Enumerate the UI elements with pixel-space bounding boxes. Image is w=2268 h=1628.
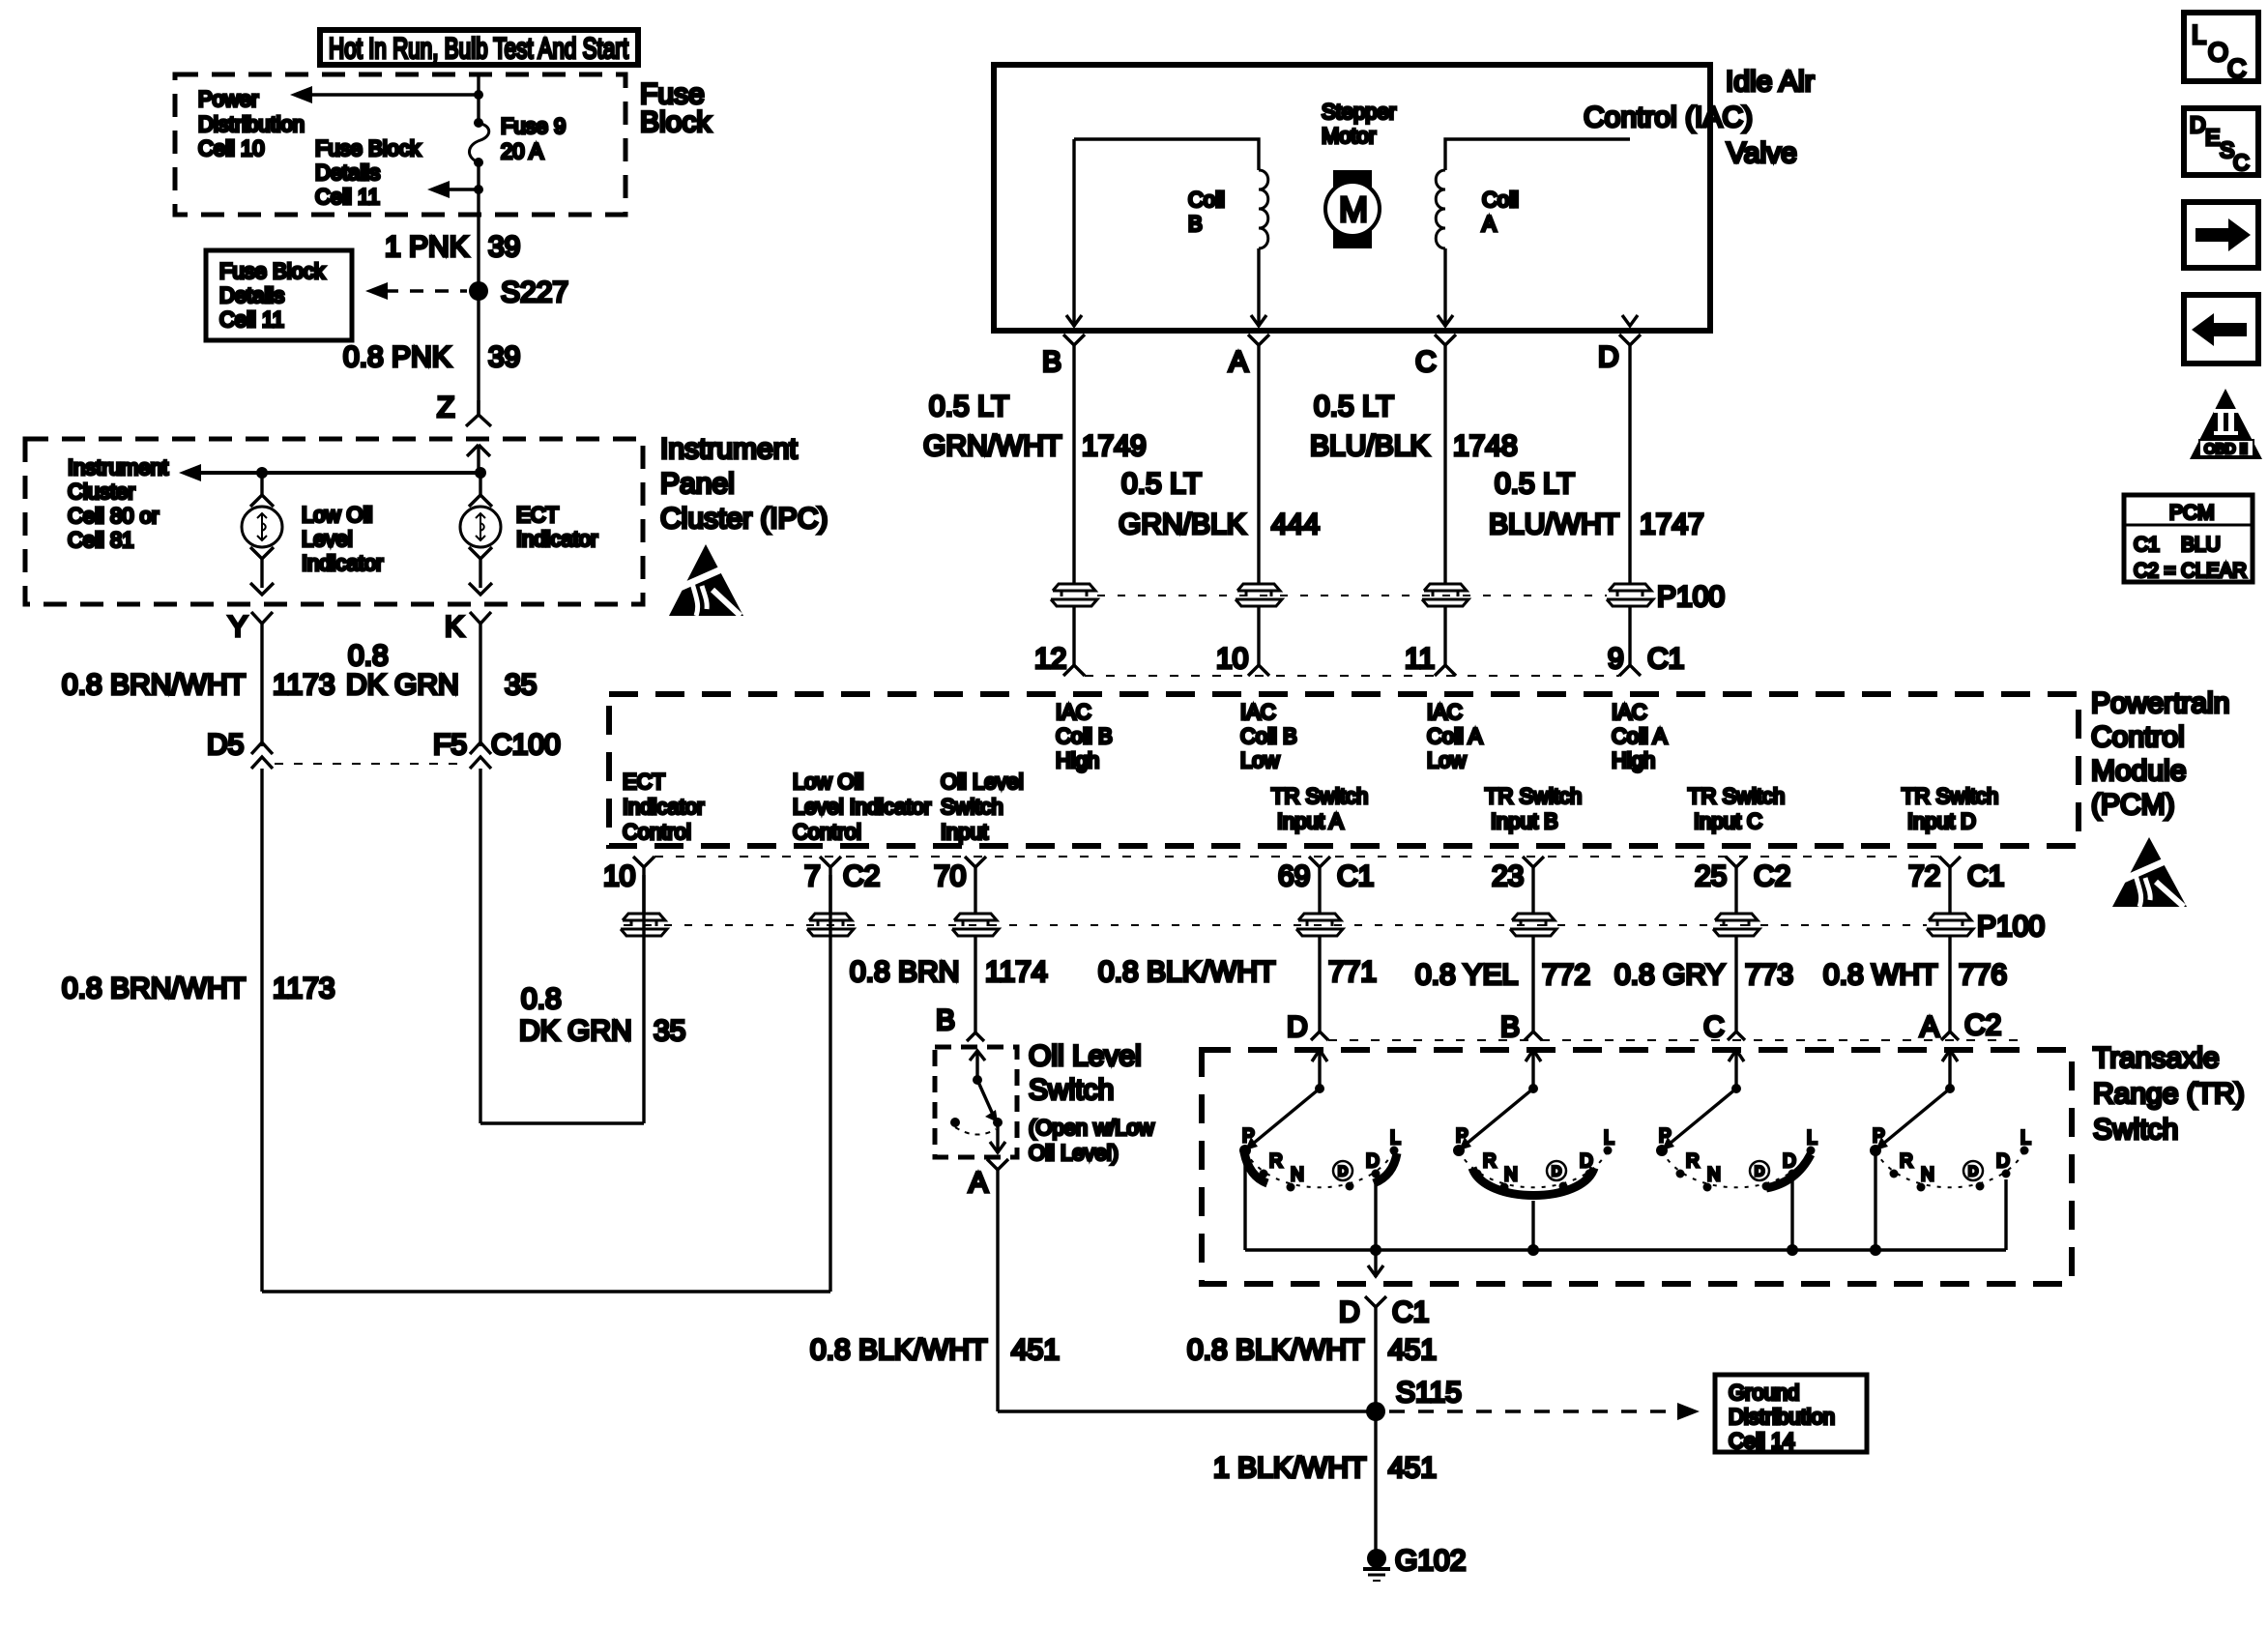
label: 0.8 DK GRN 35 (upper)	[346, 640, 537, 701]
svg-text:N: N	[1291, 1165, 1304, 1185]
svg-text:1174: 1174	[985, 956, 1048, 988]
svg-text:TR Switch: TR Switch	[1688, 784, 1785, 808]
svg-text:D: D	[1968, 1163, 1978, 1178]
pin 69 C1 below PCM	[1278, 857, 1374, 915]
label: 1 BLK/WHT 451	[1213, 1452, 1437, 1484]
lamp: Low Oil Level Indicator	[242, 473, 282, 595]
svg-text:P100: P100	[1657, 581, 1725, 613]
label: Transaxle Range (TR) Switch	[2093, 1042, 2245, 1146]
svg-text:R: R	[1483, 1151, 1497, 1172]
svg-text:Indicator: Indicator	[516, 527, 597, 551]
pin 25 C2 below PCM	[1695, 857, 1790, 915]
svg-text:772: 772	[1542, 959, 1590, 991]
svg-text:K: K	[445, 611, 464, 643]
icon: arrow left box	[2184, 295, 2258, 363]
svg-text:Panel: Panel	[660, 468, 735, 500]
svg-text:70: 70	[934, 860, 966, 892]
TR pin letter B	[1500, 1011, 1542, 1043]
svg-text:C: C	[1703, 1011, 1725, 1043]
svg-text:Cell 80 or: Cell 80 or	[68, 504, 159, 528]
oil level switch dashed box	[935, 1047, 1017, 1157]
svg-text:High: High	[1056, 748, 1099, 772]
svg-text:C1: C1	[1392, 1296, 1429, 1328]
svg-text:C: C	[1415, 346, 1437, 378]
svg-text:444: 444	[1271, 509, 1320, 540]
pin 11	[1405, 643, 1456, 676]
svg-text:PCM: PCM	[2169, 502, 2215, 524]
svg-text:IAC: IAC	[1612, 700, 1647, 724]
svg-text:(Open w/Low: (Open w/Low	[1029, 1116, 1154, 1140]
svg-text:0.8: 0.8	[521, 983, 562, 1015]
svg-text:D: D	[1552, 1163, 1561, 1178]
svg-text:S115: S115	[1396, 1377, 1462, 1409]
coil B	[1074, 139, 1268, 327]
svg-text:L: L	[1604, 1128, 1614, 1148]
wire to ground	[1374, 1411, 1377, 1551]
wire pin 69 to TR D	[1318, 936, 1321, 1032]
TR pin letter D	[1287, 1011, 1328, 1043]
svg-text:Stepper: Stepper	[1322, 100, 1396, 124]
label: Stepper Motor	[1322, 100, 1396, 148]
svg-text:0.8 BLK/WHT: 0.8 BLK/WHT	[1098, 956, 1275, 988]
svg-text:7: 7	[804, 860, 821, 892]
pin 23 below PCM	[1492, 857, 1544, 915]
svg-text:L: L	[2021, 1128, 2031, 1148]
svg-text:39: 39	[488, 341, 520, 373]
svg-text:Coil A: Coil A	[1612, 724, 1668, 748]
connector P100 on pin 25 wire	[1713, 914, 1759, 936]
svg-text:A: A	[969, 1167, 988, 1199]
connector pin Y below IPC	[228, 611, 273, 746]
svg-text:BLU: BLU	[2181, 534, 2221, 556]
TR switch unit 3 (input C)	[1656, 1050, 1817, 1250]
svg-text:0.5 LT: 0.5 LT	[1121, 468, 1202, 500]
TR internal bus wire	[1245, 1150, 2006, 1256]
svg-text:GRN/WHT: GRN/WHT	[923, 430, 1061, 462]
wire A to pin 10	[1257, 606, 1260, 666]
svg-text:23: 23	[1492, 860, 1524, 892]
svg-text:Details: Details	[315, 160, 380, 185]
svg-text:Details: Details	[219, 283, 284, 307]
label: 0.8 BLK/WHT 771	[1098, 956, 1377, 988]
svg-text:Low Oil: Low Oil	[302, 503, 372, 527]
svg-text:D5: D5	[207, 729, 244, 761]
svg-text:39: 39	[488, 231, 520, 263]
wire pin 25 to TR C	[1734, 936, 1737, 1032]
connector P100 on pin 7 wire	[807, 914, 854, 936]
svg-text:1747: 1747	[1640, 509, 1704, 540]
svg-text:25: 25	[1695, 860, 1727, 892]
connector P100 on pin 72 wire	[1927, 911, 2045, 943]
svg-text:Oil Level: Oil Level	[1029, 1040, 1142, 1072]
label: Instrument Panel Cluster (IPC)	[660, 433, 828, 535]
icon: LOC box	[2184, 13, 2258, 83]
svg-text:Control (IAC): Control (IAC)	[1584, 102, 1753, 133]
dashed pin face line PCM pins	[654, 856, 1939, 858]
svg-text:Oil Level: Oil Level	[941, 770, 1024, 794]
svg-text:C2 = CLEAR: C2 = CLEAR	[2134, 560, 2247, 582]
svg-text:Cluster: Cluster	[68, 480, 135, 504]
svg-text:Cell 10: Cell 10	[198, 136, 264, 160]
label: TR Switch Input C	[1688, 784, 1785, 833]
svg-text:R: R	[1269, 1151, 1283, 1172]
svg-text:D: D	[1366, 1151, 1380, 1172]
IAC pin A	[1229, 334, 1269, 584]
svg-text:0.8 BRN: 0.8 BRN	[850, 956, 959, 988]
connector pin K below IPC	[445, 611, 491, 746]
wire C to pin 11	[1443, 606, 1446, 666]
svg-text:Fuse Block: Fuse Block	[315, 136, 422, 160]
svg-text:A: A	[1482, 212, 1497, 236]
svg-text:Switch: Switch	[941, 795, 1003, 819]
svg-text:20 A: 20 A	[501, 139, 543, 163]
label: Idle Air Control (IAC) Valve	[1584, 66, 1815, 169]
svg-text:0.8 BRN/WHT: 0.8 BRN/WHT	[62, 973, 246, 1004]
svg-text:B: B	[1188, 212, 1203, 236]
svg-text:TR Switch: TR Switch	[1902, 784, 1998, 808]
TR pin D C1 output	[1339, 1296, 1429, 1411]
svg-text:Powertrain: Powertrain	[2091, 687, 2229, 719]
PCM connector legend box	[2124, 495, 2253, 582]
connector P100 on wire D	[1607, 581, 1725, 613]
IAC pin D	[1598, 334, 1641, 584]
svg-text:771: 771	[1328, 956, 1377, 988]
svg-text:O: O	[2208, 38, 2228, 67]
dashed pin face line IAC pins	[1085, 675, 1619, 677]
svg-text:C100: C100	[491, 729, 561, 761]
svg-text:Transaxle: Transaxle	[2093, 1042, 2220, 1074]
label: Fuse Block	[640, 78, 712, 138]
svg-text:Coil B: Coil B	[1056, 724, 1113, 748]
pin 70 below PCM	[934, 857, 986, 915]
svg-text:D: D	[1598, 341, 1619, 373]
svg-text:TR Switch: TR Switch	[1485, 784, 1582, 808]
icon: OBD II triangle	[2190, 389, 2262, 459]
svg-text:12: 12	[1034, 643, 1066, 675]
svg-text:N: N	[1921, 1165, 1934, 1185]
svg-text:IAC: IAC	[1240, 700, 1276, 724]
svg-text:11: 11	[1405, 643, 1435, 675]
connector P100 on wire A	[1236, 584, 1282, 606]
arrow to fuse block details	[427, 181, 483, 198]
svg-text:P: P	[1659, 1126, 1672, 1147]
svg-text:A: A	[1229, 346, 1248, 378]
connector C100 D5	[207, 729, 273, 769]
oil switch pin B	[936, 1004, 984, 1041]
coil A	[1436, 139, 1630, 327]
svg-text:Distribution: Distribution	[198, 112, 305, 136]
svg-text:C1: C1	[1647, 643, 1684, 675]
arrow coil A high inside box	[1622, 315, 1638, 326]
label: Oil Level Switch Input	[941, 770, 1024, 844]
svg-text:C: C	[2227, 54, 2247, 83]
pin 10 below PCM	[603, 857, 654, 915]
svg-text:Level: Level	[302, 527, 353, 551]
svg-text:0.8 GRY: 0.8 GRY	[1614, 959, 1726, 991]
svg-text:Cell 11: Cell 11	[219, 307, 284, 332]
svg-text:9: 9	[1608, 643, 1624, 675]
svg-text:GRN/BLK: GRN/BLK	[1119, 509, 1246, 540]
svg-text:DK GRN: DK GRN	[346, 669, 459, 701]
svg-text:N: N	[1504, 1165, 1518, 1185]
svg-text:Coil A: Coil A	[1427, 724, 1483, 748]
svg-text:Coil: Coil	[1482, 188, 1519, 212]
svg-text:(PCM): (PCM)	[2091, 789, 2175, 821]
svg-text:DK GRN: DK GRN	[519, 1015, 632, 1047]
TR switch unit 1 (input D)	[1239, 1050, 1401, 1250]
svg-text:Fuse Block: Fuse Block	[219, 259, 326, 283]
connector P100 row 1 dashed line	[1097, 595, 1607, 596]
wire entering IPC with up arrow	[467, 445, 490, 473]
svg-text:Cell 14: Cell 14	[1729, 1429, 1794, 1453]
ground G102	[1363, 1545, 1466, 1581]
svg-text:1 PNK: 1 PNK	[385, 231, 469, 263]
svg-text:D: D	[1783, 1151, 1796, 1172]
label: 0.8 WHT 776	[1823, 959, 2007, 991]
wire coil B high inside box	[1066, 139, 1082, 327]
svg-text:0.8 YEL: 0.8 YEL	[1415, 959, 1518, 991]
label: IAC Coil A Low	[1427, 700, 1483, 772]
label: 0.8 YEL 772	[1415, 959, 1590, 991]
svg-text:Block: Block	[640, 106, 712, 138]
svg-text:Low Oil: Low Oil	[793, 770, 863, 794]
svg-text:B: B	[936, 1004, 955, 1036]
svg-text:B: B	[1500, 1011, 1520, 1043]
svg-text:C1: C1	[1967, 860, 2004, 892]
svg-text:C1: C1	[1337, 860, 1374, 892]
svg-text:451: 451	[1388, 1334, 1437, 1366]
pin 7 C2 below PCM	[804, 857, 880, 915]
svg-text:10: 10	[603, 860, 635, 892]
svg-text:Low: Low	[1240, 748, 1279, 772]
svg-text:1748: 1748	[1453, 430, 1518, 462]
connector pin Z	[437, 392, 491, 426]
fuse Fuse 9 20 A	[469, 114, 566, 167]
label: ECT Indicator Control	[623, 770, 704, 844]
arrow to power distribution	[290, 86, 483, 103]
svg-text:C2: C2	[1964, 1009, 2001, 1041]
svg-text:0.8 PNK: 0.8 PNK	[343, 341, 451, 373]
svg-text:Idle Air: Idle Air	[1726, 66, 1815, 98]
svg-text:Cell 81: Cell 81	[68, 528, 133, 552]
oil level switch contacts	[950, 1051, 1005, 1153]
svg-text:Module: Module	[2091, 755, 2186, 787]
pin 72 C1 below PCM	[1908, 857, 2004, 915]
svg-text:Range (TR): Range (TR)	[2093, 1078, 2245, 1110]
svg-text:776: 776	[1959, 959, 2007, 991]
TR switch unit 2 (input B)	[1453, 1050, 1614, 1250]
label: IAC Coil B Low	[1240, 700, 1297, 772]
IAC pin B	[1042, 334, 1085, 584]
connector P100 on pin 70 wire	[952, 914, 999, 936]
svg-text:N: N	[1707, 1165, 1721, 1185]
PCM dashed box	[609, 694, 2079, 846]
svg-text:M: M	[1339, 189, 1368, 229]
label: 0.8 BRN/WHT 1173 (lower)	[62, 973, 335, 1004]
label: Power Distribution Cell 10	[198, 87, 305, 160]
svg-text:0.8: 0.8	[348, 640, 389, 672]
svg-text:Coil: Coil	[1188, 188, 1225, 212]
fuse block dashed box	[175, 74, 625, 215]
svg-text:Oil Level): Oil Level)	[1029, 1141, 1119, 1165]
svg-text:C2: C2	[843, 860, 880, 892]
TR output wire with down arrow	[1368, 1250, 1383, 1277]
svg-text:1749: 1749	[1082, 430, 1147, 462]
svg-text:Control: Control	[2091, 721, 2185, 753]
svg-text:D: D	[1338, 1163, 1348, 1178]
label: IAC Coil B High	[1056, 700, 1113, 772]
connector P100 on pin 10 wire	[621, 914, 667, 936]
stepper motor M	[1325, 170, 1380, 248]
label: 0.8 BLK/WHT 451 (right)	[1187, 1334, 1437, 1366]
svg-text:0.8 WHT: 0.8 WHT	[1823, 959, 1937, 991]
connector P100 on pin 69 wire	[1296, 914, 1343, 936]
IAC pin C	[1415, 334, 1456, 584]
IAC valve box	[994, 65, 1710, 331]
svg-text:Input A: Input A	[1277, 809, 1344, 833]
label: 0.5 LT GRN/WHT 1749	[923, 391, 1147, 462]
label: 0.5 LT BLU/WHT 1747	[1489, 468, 1704, 540]
wire pin 70 to oil level switch	[974, 936, 976, 1032]
pin 9 C1	[1608, 643, 1684, 676]
TR switch unit 4 (input A)	[1870, 1050, 2031, 1250]
transaxle range TR switch dashed box	[1202, 1050, 2072, 1284]
svg-text:1173: 1173	[273, 973, 335, 1004]
label: 0.8 GRY 773	[1614, 959, 1793, 991]
svg-text:Input C: Input C	[1694, 809, 1762, 833]
wire: 1173 run to PCM pin 7	[262, 769, 830, 1292]
svg-text:451: 451	[1011, 1334, 1060, 1366]
splice S115	[998, 1377, 1700, 1421]
svg-text:S227: S227	[501, 276, 568, 308]
label: TR Switch Input A	[1271, 784, 1368, 833]
IPC dashed box	[25, 439, 643, 604]
svg-text:P100: P100	[1977, 911, 2045, 943]
svg-text:69: 69	[1278, 860, 1310, 892]
svg-text:Ground: Ground	[1729, 1381, 1799, 1405]
svg-text:Low: Low	[1427, 748, 1466, 772]
svg-text:IAC: IAC	[1056, 700, 1091, 724]
ground distribution cell 14 box	[1715, 1375, 1867, 1453]
fuse block details cell 11 box	[206, 250, 352, 340]
ESD symbol near IPC	[669, 544, 743, 616]
svg-text:R: R	[1900, 1151, 1913, 1172]
svg-text:TR Switch: TR Switch	[1271, 784, 1368, 808]
svg-text:C: C	[2233, 150, 2250, 175]
svg-text:35: 35	[505, 669, 537, 701]
arrow coil A low inside box	[1438, 315, 1453, 326]
wire D to pin 9	[1628, 606, 1631, 666]
svg-text:0.8 BRN/WHT: 0.8 BRN/WHT	[62, 669, 246, 701]
svg-text:Indicator: Indicator	[623, 795, 704, 819]
label: 0.5 LT GRN/BLK 444	[1119, 468, 1320, 540]
svg-text:BLU/BLK: BLU/BLK	[1310, 430, 1429, 462]
banner: Hot In Run, Bulb Test And Start	[320, 30, 638, 65]
svg-text:Switch: Switch	[2093, 1114, 2178, 1146]
svg-text:Coil B: Coil B	[1240, 724, 1297, 748]
label: 0.8 DK GRN 35 (lower)	[519, 983, 685, 1047]
svg-text:1 BLK/WHT: 1 BLK/WHT	[1213, 1452, 1366, 1484]
svg-text:BLU/WHT: BLU/WHT	[1489, 509, 1619, 540]
svg-text:Valve: Valve	[1727, 137, 1797, 169]
wire: fuse output	[477, 162, 480, 416]
svg-text:OBD II: OBD II	[2204, 441, 2248, 457]
splice S227	[365, 276, 568, 308]
svg-text:Cell 11: Cell 11	[315, 185, 380, 209]
pin 10	[1216, 643, 1269, 676]
svg-text:R: R	[1686, 1151, 1700, 1172]
svg-text:Input D: Input D	[1907, 809, 1976, 833]
svg-text:Control: Control	[623, 820, 691, 844]
label: 1 PNK 39	[385, 231, 520, 263]
svg-text:D: D	[1339, 1296, 1360, 1328]
svg-text:Cluster (IPC): Cluster (IPC)	[660, 503, 828, 535]
connector C100 F5	[433, 729, 561, 769]
label: Oil Level Switch	[1029, 1040, 1154, 1165]
icon: arrow right box	[2184, 202, 2258, 268]
lamp: ECT Indicator	[460, 473, 501, 595]
svg-text:Instrument: Instrument	[660, 433, 798, 465]
svg-text:1173: 1173	[273, 669, 335, 701]
label: 0.8 PNK 39	[343, 341, 520, 373]
arrow coil B low inside box	[1251, 315, 1266, 326]
svg-text:D: D	[1755, 1163, 1764, 1178]
label: Low Oil Level Indicator Control	[793, 770, 931, 844]
svg-text:ECT: ECT	[623, 770, 665, 794]
IPC internal bus	[179, 464, 486, 481]
svg-text:0.5 LT: 0.5 LT	[929, 391, 1009, 422]
svg-text:G102: G102	[1395, 1545, 1466, 1577]
svg-text:10: 10	[1216, 643, 1248, 675]
connector P100 on wire C	[1422, 584, 1468, 606]
svg-text:P: P	[1242, 1126, 1255, 1147]
svg-text:B: B	[1042, 346, 1061, 378]
svg-text:Instrument: Instrument	[68, 455, 168, 480]
svg-text:Distribution: Distribution	[1729, 1405, 1835, 1429]
label: 0.8 BRN 1174	[850, 956, 1048, 988]
svg-text:Fuse 9: Fuse 9	[501, 114, 566, 138]
label: 0.5 LT BLU/BLK 1748	[1310, 391, 1518, 462]
svg-text:Motor: Motor	[1322, 124, 1376, 148]
svg-text:L: L	[1807, 1128, 1817, 1148]
svg-text:0.5 LT: 0.5 LT	[1314, 391, 1394, 422]
wire: 35 run to PCM pin 10	[480, 769, 644, 1123]
svg-text:C1: C1	[2134, 534, 2160, 556]
svg-text:Y: Y	[228, 611, 247, 643]
label: 0.8 BLK/WHT 451 (left)	[810, 1334, 1060, 1366]
label: ECT Indicator	[516, 503, 597, 551]
svg-text:ECT: ECT	[516, 503, 559, 527]
svg-text:IAC: IAC	[1427, 700, 1463, 724]
svg-text:72: 72	[1908, 860, 1940, 892]
label: Powertrain Control Module (PCM)	[2091, 687, 2229, 821]
svg-text:L: L	[2192, 20, 2206, 49]
svg-text:D: D	[2190, 112, 2206, 137]
connector P100 on pin 23 wire	[1510, 914, 1556, 936]
wire: feed into fuse block	[477, 76, 480, 121]
svg-text:E: E	[2205, 125, 2220, 150]
label: IAC Coil A High	[1612, 700, 1668, 772]
svg-text:Control: Control	[793, 820, 861, 844]
label: Instrument Cluster Cell 80 or Cell 81	[68, 455, 168, 552]
wire pin 23 to TR B	[1531, 936, 1534, 1032]
svg-text:High: High	[1612, 748, 1655, 772]
svg-text:Input: Input	[941, 820, 988, 844]
svg-text:D: D	[1287, 1011, 1308, 1043]
icon: DESC box	[2184, 108, 2258, 175]
label: Low Oil Level Indicator	[302, 503, 383, 575]
connector P100 row 2 dashed line	[624, 924, 1927, 926]
